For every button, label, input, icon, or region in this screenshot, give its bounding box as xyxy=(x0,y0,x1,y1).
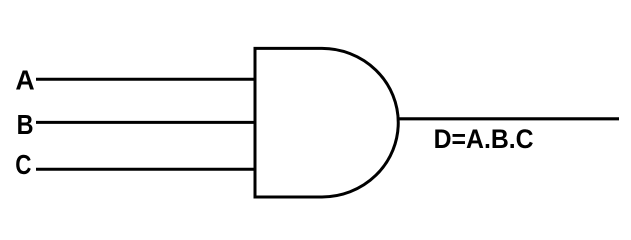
wire output D xyxy=(397,117,619,120)
wire input C xyxy=(36,168,256,171)
wire input B xyxy=(36,121,256,124)
AND gate U1 body xyxy=(255,48,398,197)
svg-text:A: A xyxy=(15,64,34,95)
wire input A xyxy=(36,78,256,81)
svg-text:C: C xyxy=(15,149,31,180)
svg-text:B: B xyxy=(17,109,34,140)
svg-text:D=A.B.C: D=A.B.C xyxy=(434,124,534,154)
